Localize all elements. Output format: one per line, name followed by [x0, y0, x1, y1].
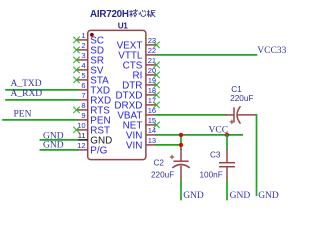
svg-text:14: 14	[148, 126, 156, 135]
svg-text:13: 13	[148, 136, 156, 145]
wire GND to pin 11	[40, 139, 77, 141]
pin 9 (PEN) of U1	[77, 111, 110, 127]
svg-text:GND: GND	[258, 191, 279, 201]
svg-text:C2: C2	[154, 158, 165, 167]
capacitor C2 220uF polarized	[151, 149, 190, 181]
ground label at pin 12	[43, 141, 64, 151]
node net label A_RXD	[11, 89, 43, 99]
svg-text:A_RXD: A_RXD	[11, 89, 43, 99]
wire pin 22 to VCC33	[156, 54, 256, 56]
pin 21 (CTS) of U1	[123, 56, 160, 72]
svg-text:P/G: P/G	[90, 146, 107, 157]
node net label A_TXD	[11, 79, 42, 89]
node junction at pin14 wire / C2	[179, 133, 183, 137]
node junction VCC / C3	[225, 133, 229, 137]
pin 16 (VBAT) of U1	[117, 106, 156, 122]
power port VCC	[209, 125, 229, 135]
wire C2 to GND	[180, 181, 182, 200]
svg-text:16: 16	[148, 106, 156, 115]
power port VCC33	[257, 46, 286, 56]
ground label right of C1 wire	[258, 191, 279, 201]
svg-text:220uF: 220uF	[151, 170, 174, 179]
svg-text:C3: C3	[210, 151, 221, 160]
svg-text:AIR720H: AIR720H	[90, 9, 129, 20]
svg-text:GND: GND	[183, 191, 204, 201]
wire net A_RXD to pin 7	[6, 99, 77, 101]
IC U1 body: AIR720H core board module	[88, 30, 146, 159]
wire pin 16 (VBAT) to C1	[156, 114, 225, 116]
svg-text:12: 12	[77, 141, 85, 150]
wire net A_TXD to pin 6	[6, 89, 77, 91]
svg-text:GND: GND	[230, 191, 251, 201]
wire C3 to GND	[226, 181, 228, 200]
pin 4 (SV) of U1	[73, 61, 104, 77]
svg-text:220uF: 220uF	[230, 94, 253, 103]
svg-text:100nF: 100nF	[200, 170, 223, 179]
pin 3 (SR) of U1	[73, 51, 104, 67]
svg-text:VIN: VIN	[126, 141, 142, 152]
pin 22 (VTTL) of U1	[118, 46, 156, 62]
pin 11 (GND) of U1	[77, 131, 112, 147]
pin 10 (RST) of U1	[73, 121, 110, 137]
pin 20 (RI) of U1	[133, 66, 160, 82]
wire pin 14 (VIN) VCC rail	[156, 134, 242, 136]
svg-text:3: 3	[81, 51, 85, 60]
pin 23 (VEXT) of U1	[117, 36, 160, 52]
pin 13 (VIN) of U1	[126, 136, 156, 152]
pin 7 (RXD) of U1	[77, 91, 111, 107]
svg-text:A_TXD: A_TXD	[11, 79, 42, 89]
svg-text:11: 11	[78, 131, 86, 140]
wire C3 branch vertical	[226, 135, 228, 149]
wire C1 to GND (right vertical)	[256, 115, 258, 195]
svg-text:PEN: PEN	[14, 110, 32, 120]
wire C2 branch vertical	[180, 135, 182, 149]
svg-text:22: 22	[148, 46, 156, 55]
wire net PEN to pin 9	[3, 119, 77, 121]
svg-text:C1: C1	[231, 85, 242, 94]
svg-text:7: 7	[81, 91, 85, 100]
svg-text:VCC33: VCC33	[257, 46, 286, 56]
ground label below C3	[230, 191, 251, 201]
svg-text:GND: GND	[43, 141, 64, 151]
ground label below C2	[183, 191, 204, 201]
pin 2 (SD) of U1	[73, 41, 104, 57]
svg-text:5: 5	[81, 71, 85, 80]
svg-text:8: 8	[81, 101, 85, 110]
ground label at pin 11	[43, 131, 64, 141]
pin 12 (P/G) of U1	[77, 141, 107, 157]
svg-text:1: 1	[81, 31, 85, 40]
pin 1 (SC) of U1	[73, 31, 104, 47]
svg-text:4: 4	[81, 61, 85, 70]
node junction at pin13 wire / C2	[179, 143, 183, 147]
svg-text:9: 9	[81, 111, 85, 120]
pin 8 (RTS) of U1	[73, 101, 110, 117]
pin 17 (DRXD) of U1	[114, 96, 159, 112]
node pin-1 marker dot	[90, 33, 94, 37]
pin 15 (NET) of U1	[123, 116, 160, 132]
wire pin 13 (VIN) to C2 branch	[156, 144, 181, 146]
pin 14 (VIN) of U1	[126, 126, 156, 142]
node net label PEN	[14, 110, 32, 120]
wire GND to pin 12	[40, 149, 77, 151]
pin 18 (DTXD) of U1	[116, 86, 160, 102]
U1 reference designator	[118, 21, 129, 30]
capacitor C1 220uF polarized	[226, 85, 257, 124]
pin 6 (TXD) of U1	[77, 81, 110, 97]
pin 19 (DTR) of U1	[122, 76, 160, 92]
svg-text:6: 6	[81, 81, 85, 90]
capacitor C3 100nF	[200, 149, 236, 181]
pin 5 (STA) of U1	[73, 71, 109, 87]
svg-text:2: 2	[81, 41, 85, 50]
svg-text:U1: U1	[118, 21, 129, 30]
U1 title label AIR720H core board	[90, 9, 155, 20]
